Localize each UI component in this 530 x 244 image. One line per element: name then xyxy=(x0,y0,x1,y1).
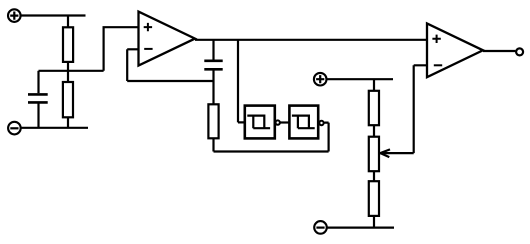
wire R1 bottom lead xyxy=(67,62,69,71)
wire bottom left rail xyxy=(21,127,88,129)
schmitt trigger U2 xyxy=(245,106,275,139)
wire U1 output bus xyxy=(195,39,427,41)
wire from V1+ to node top xyxy=(21,14,86,16)
schmitt trigger U3 xyxy=(289,106,318,139)
terminal V2+ (middle plus supply) xyxy=(314,73,327,86)
wire R1 top lead xyxy=(67,16,69,28)
wire U2 to U3 xyxy=(280,121,289,123)
node A horizontal wire xyxy=(39,70,104,72)
terminal V2- (bottom minus supply) xyxy=(314,221,327,234)
wire C2 bottom lead to R3 xyxy=(212,70,214,104)
bubble U3 output xyxy=(319,121,323,125)
resistor R4 xyxy=(369,91,379,125)
capacitor C1 xyxy=(28,94,48,102)
wire R6 bottom lead xyxy=(373,216,375,228)
wire U4 output xyxy=(483,50,515,52)
wire U2 input from U1 output xyxy=(238,40,245,123)
wire V2+ to divider top xyxy=(327,78,393,80)
resistor R6 xyxy=(369,181,379,216)
wire wiper up to U4 minus input xyxy=(414,65,427,153)
op-amp U4 xyxy=(427,24,483,78)
wire C1 top lead xyxy=(37,71,39,93)
terminal V1- (bottom left minus input) xyxy=(8,122,21,135)
wire R2 bottom lead xyxy=(67,117,69,128)
wire node A to op-amp U1 plus input xyxy=(104,27,139,71)
potentiometer R5 xyxy=(369,137,379,172)
op-amp U1 xyxy=(139,12,196,66)
wire U1 feedback horizontal to C2 bottom node xyxy=(127,80,213,82)
wiper arrow of R5 xyxy=(380,149,414,157)
wire C1 bottom lead xyxy=(37,104,39,128)
bubble U2 output xyxy=(276,120,280,124)
resistor R3 xyxy=(208,104,218,138)
terminal V1+ (top left plus input) xyxy=(8,9,21,22)
wire R3 bottom lead xyxy=(212,138,214,151)
wire feedback bottom from U3 output xyxy=(214,123,329,152)
resistor R1 xyxy=(63,27,73,62)
capacitor C2 xyxy=(204,61,222,70)
wire R2 top lead xyxy=(67,71,69,82)
resistor R2 xyxy=(63,82,73,117)
wire C2 top lead xyxy=(212,40,214,60)
wire U1 minus input stub xyxy=(127,48,138,50)
wire R4 top lead xyxy=(373,79,375,91)
wire R4 to R5 xyxy=(373,125,375,137)
terminal output (open circle) xyxy=(516,48,523,55)
wire U1 feedback down xyxy=(126,49,128,81)
wire R5 to R6 xyxy=(373,171,375,181)
wire bottom right rail xyxy=(327,227,394,229)
